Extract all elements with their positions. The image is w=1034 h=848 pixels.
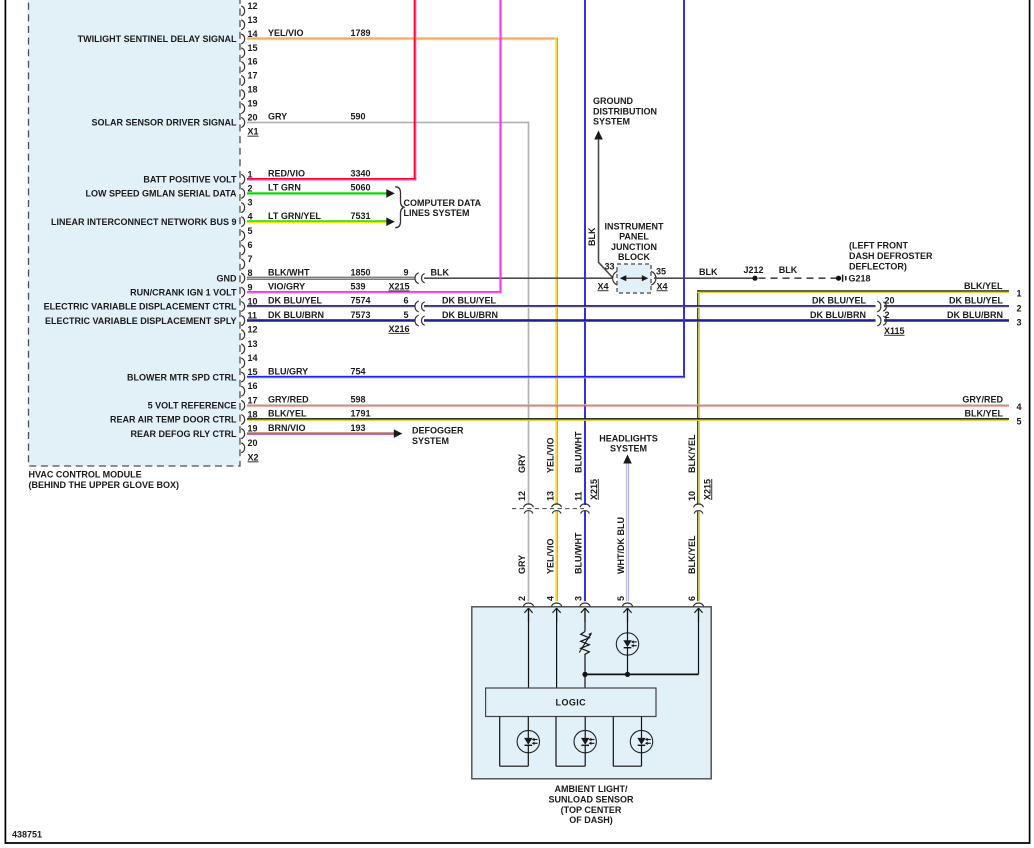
svg-text:15: 15 [248,367,258,377]
svg-text:GRY/RED: GRY/RED [268,395,309,405]
svg-text:438751: 438751 [12,830,42,840]
svg-text:6: 6 [403,296,408,306]
svg-text:G218: G218 [849,273,871,283]
svg-text:590: 590 [351,112,366,122]
svg-text:TWILIGHT SENTINEL DELAY SIGNAL: TWILIGHT SENTINEL DELAY SIGNAL [78,34,237,44]
svg-text:ELECTRIC VARIABLE DISPLACEMENT: ELECTRIC VARIABLE DISPLACEMENT CTRL [44,302,237,312]
svg-text:9: 9 [248,282,253,292]
svg-text:J212: J212 [743,265,763,275]
svg-text:BLK/YEL: BLK/YEL [687,535,697,574]
svg-text:13: 13 [248,339,258,349]
svg-text:5: 5 [248,226,253,236]
svg-text:1789: 1789 [351,28,371,38]
svg-text:2: 2 [885,310,890,320]
svg-text:14: 14 [248,353,258,363]
svg-text:GRY: GRY [517,454,527,473]
svg-text:13: 13 [545,491,555,501]
svg-text:X4: X4 [657,281,668,291]
svg-text:7573: 7573 [351,310,371,320]
svg-text:12: 12 [248,1,258,11]
svg-text:3340: 3340 [351,169,371,179]
svg-text:5 VOLT REFERENCE: 5 VOLT REFERENCE [148,401,237,411]
svg-text:BRN/VIO: BRN/VIO [268,423,306,433]
svg-text:BLK/YEL: BLK/YEL [964,281,1003,291]
svg-text:LOW SPEED GMLAN SERIAL DATA: LOW SPEED GMLAN SERIAL DATA [85,189,237,199]
svg-text:6: 6 [248,240,253,250]
svg-text:X215: X215 [389,282,410,292]
svg-text:35: 35 [656,267,666,277]
svg-text:13: 13 [248,15,258,25]
svg-text:3: 3 [248,198,253,208]
svg-text:LINES SYSTEM: LINES SYSTEM [404,208,470,218]
svg-text:20: 20 [248,113,258,123]
svg-text:19: 19 [248,99,258,109]
svg-text:DEFOGGER: DEFOGGER [412,425,464,435]
svg-text:DK BLU/YEL: DK BLU/YEL [268,296,323,306]
svg-text:754: 754 [351,366,366,376]
svg-text:33: 33 [604,262,614,272]
svg-text:DISTRIBUTION: DISTRIBUTION [593,107,657,117]
svg-text:17: 17 [248,395,258,405]
svg-text:11: 11 [574,491,584,501]
svg-text:LOGIC: LOGIC [556,698,587,708]
svg-text:DASH DEFROSTER: DASH DEFROSTER [849,251,933,261]
svg-text:(TOP CENTER: (TOP CENTER [561,805,622,815]
svg-text:YEL/VIO: YEL/VIO [545,437,555,473]
svg-text:(LEFT FRONT: (LEFT FRONT [849,241,908,251]
svg-text:BLOCK: BLOCK [618,252,650,262]
svg-text:GRY/RED: GRY/RED [962,395,1003,405]
svg-text:DK BLU/BRN: DK BLU/BRN [442,310,498,320]
svg-text:12: 12 [248,325,258,335]
svg-text:BLU/WHT: BLU/WHT [574,532,584,574]
svg-text:3: 3 [1017,317,1022,327]
svg-text:4: 4 [545,596,555,601]
svg-text:7574: 7574 [351,296,371,306]
svg-text:16: 16 [248,57,258,67]
svg-text:11: 11 [248,311,258,321]
svg-text:1: 1 [1017,289,1022,299]
svg-text:(BEHIND THE UPPER GLOVE BOX): (BEHIND THE UPPER GLOVE BOX) [29,480,180,490]
svg-text:HVAC CONTROL MODULE: HVAC CONTROL MODULE [29,470,142,480]
svg-text:X4: X4 [598,281,609,291]
svg-text:SYSTEM: SYSTEM [412,436,449,446]
svg-text:BLK/YEL: BLK/YEL [268,409,307,419]
svg-text:BLK: BLK [587,227,597,246]
svg-text:BLU/GRY: BLU/GRY [268,366,308,376]
svg-text:GRY: GRY [268,112,287,122]
svg-text:GROUND: GROUND [593,96,633,106]
svg-text:14: 14 [248,29,258,39]
svg-text:7531: 7531 [351,211,371,221]
svg-text:GND: GND [217,273,238,283]
svg-text:DK BLU/YEL: DK BLU/YEL [812,296,867,306]
svg-text:X115: X115 [884,326,905,336]
svg-text:193: 193 [351,423,366,433]
svg-text:DK BLU/BRN: DK BLU/BRN [268,310,324,320]
svg-text:SYSTEM: SYSTEM [610,444,647,454]
svg-text:DK BLU/BRN: DK BLU/BRN [810,310,866,320]
svg-text:BATT POSITIVE VOLT: BATT POSITIVE VOLT [143,175,237,185]
svg-text:VIO/GRY: VIO/GRY [268,282,305,292]
svg-text:9: 9 [403,267,408,277]
svg-text:BLK/YEL: BLK/YEL [687,434,697,473]
svg-text:X1: X1 [248,127,259,137]
svg-text:WHT/DK BLU: WHT/DK BLU [616,517,626,574]
svg-text:BLK: BLK [699,267,718,277]
svg-text:X215: X215 [589,479,599,500]
svg-text:SUNLOAD SENSOR: SUNLOAD SENSOR [548,795,634,805]
svg-text:1: 1 [248,169,253,179]
svg-text:BLOWER MTR SPD CTRL: BLOWER MTR SPD CTRL [127,372,237,382]
svg-text:15: 15 [248,43,258,53]
svg-text:1850: 1850 [351,267,371,277]
svg-text:RUN/CRANK IGN 1 VOLT: RUN/CRANK IGN 1 VOLT [130,288,237,298]
svg-text:6: 6 [687,596,697,601]
svg-text:SOLAR SENSOR DRIVER SIGNAL: SOLAR SENSOR DRIVER SIGNAL [91,118,237,128]
svg-text:20: 20 [885,296,895,306]
svg-text:GRY: GRY [517,555,527,574]
svg-text:16: 16 [248,381,258,391]
svg-text:BLK/YEL: BLK/YEL [964,409,1003,419]
svg-text:YEL/VIO: YEL/VIO [545,538,555,574]
svg-text:DK BLU/YEL: DK BLU/YEL [949,296,1004,306]
svg-text:LT GRN: LT GRN [268,183,301,193]
svg-text:X216: X216 [389,324,410,334]
svg-text:12: 12 [517,491,527,501]
svg-text:18: 18 [248,85,258,95]
svg-text:SYSTEM: SYSTEM [593,117,630,127]
svg-text:17: 17 [248,71,258,81]
svg-text:2: 2 [1017,303,1022,313]
svg-text:PANEL: PANEL [619,232,649,242]
svg-text:YEL/VIO: YEL/VIO [268,28,304,38]
svg-text:RED/VIO: RED/VIO [268,169,305,179]
svg-text:BLK: BLK [779,265,798,275]
svg-text:8: 8 [248,268,253,278]
svg-text:DEFLECTOR): DEFLECTOR) [849,262,907,272]
svg-text:X215: X215 [702,479,712,500]
svg-text:LT GRN/YEL: LT GRN/YEL [268,211,321,221]
svg-text:5060: 5060 [351,183,371,193]
svg-text:ELECTRIC VARIABLE DISPLACEMENT: ELECTRIC VARIABLE DISPLACEMENT SPLY [45,316,237,326]
svg-text:DK BLU/BRN: DK BLU/BRN [947,310,1003,320]
svg-text:INSTRUMENT: INSTRUMENT [605,221,664,231]
svg-text:2: 2 [248,183,253,193]
svg-text:539: 539 [351,282,366,292]
svg-text:LINEAR INTERCONNECT NETWORK BU: LINEAR INTERCONNECT NETWORK BUS 9 [51,217,237,227]
svg-text:3: 3 [574,596,584,601]
svg-text:10: 10 [248,297,258,307]
svg-text:4: 4 [1017,402,1022,412]
svg-text:5: 5 [1017,416,1022,426]
svg-text:18: 18 [248,410,258,420]
svg-text:REAR AIR TEMP DOOR CTRL: REAR AIR TEMP DOOR CTRL [110,415,237,425]
svg-text:10: 10 [687,491,697,501]
svg-text:JUNCTION: JUNCTION [611,242,657,252]
svg-text:4: 4 [248,212,253,222]
svg-text:598: 598 [351,395,366,405]
svg-text:20: 20 [248,438,258,448]
svg-text:AMBIENT LIGHT/: AMBIENT LIGHT/ [555,784,628,794]
svg-text:REAR DEFOG RLY CTRL: REAR DEFOG RLY CTRL [130,429,237,439]
svg-text:19: 19 [248,424,258,434]
svg-text:5: 5 [403,310,408,320]
svg-text:OF DASH): OF DASH) [569,815,613,825]
svg-text:2: 2 [517,596,527,601]
svg-text:DK BLU/YEL: DK BLU/YEL [442,296,497,306]
svg-text:HEADLIGHTS: HEADLIGHTS [599,433,658,443]
svg-text:BLK/WHT: BLK/WHT [268,267,310,277]
svg-text:BLU/WHT: BLU/WHT [574,431,584,473]
svg-text:BLK: BLK [431,267,450,277]
svg-text:1791: 1791 [351,409,371,419]
svg-text:5: 5 [616,596,626,601]
svg-text:7: 7 [248,254,253,264]
svg-text:COMPUTER DATA: COMPUTER DATA [404,198,482,208]
svg-text:X2: X2 [248,452,259,462]
